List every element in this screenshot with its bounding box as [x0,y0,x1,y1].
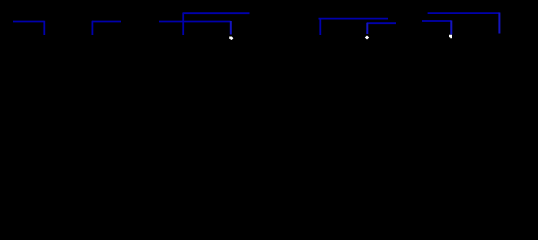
probe marker 3 [449,35,452,38]
wire net4 lower horizontal [367,22,396,24]
wire net3 right vertical [230,21,232,35]
wire net1 vertical drop [43,21,45,35]
wire net1 horizontal [13,21,45,23]
probe marker 1 [229,37,233,40]
wire net4 horizontal [319,18,389,20]
wire net5 lower horizontal [422,20,451,22]
wire net5 mid vertical [450,21,452,35]
wire net2 vertical drop [91,21,93,35]
wire net3 lower horizontal [159,21,231,23]
wire net3 left vertical [182,13,184,36]
wire net5 top horizontal [428,12,500,14]
wire net2 horizontal [92,21,121,23]
wire net4 left vertical [319,18,321,35]
probe marker 2 [365,36,369,40]
wire net3 top horizontal [183,12,250,14]
wire net5 right vertical [498,13,500,34]
wire net4 mid vertical [366,23,368,34]
